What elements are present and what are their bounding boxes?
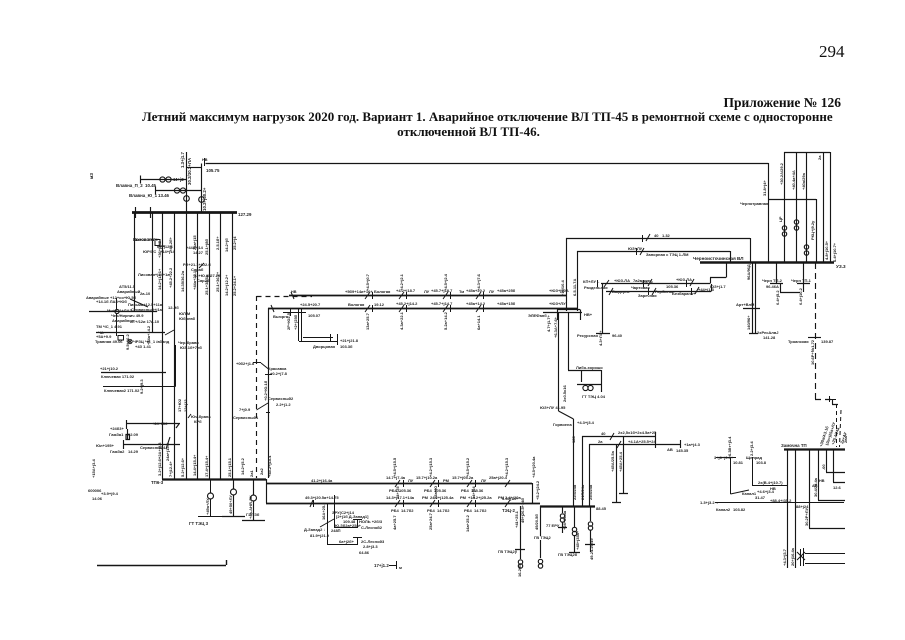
svg-text:+45.2+22.2: +45.2+22.2 [168, 267, 173, 288]
lower double bus slashes [310, 480, 510, 507]
svg-text:12+(13: 12+(13 [183, 399, 188, 412]
column short B [152, 212, 154, 332]
svg-text:49+50+ЛУ: 49+50+ЛУ [228, 495, 233, 514]
vline x830 [830, 152, 832, 262]
svg-text:2x(В.4+j10.7): 2x(В.4+j10.7) [758, 480, 783, 485]
svg-text:40: 40 [601, 431, 606, 436]
GT TEC circles [583, 385, 593, 390]
svg-text:12.6: 12.6 [833, 485, 842, 490]
column 5 [209, 212, 211, 479]
svg-text:13а+25.7: 13а+25.7 [365, 312, 370, 330]
svg-text:2x0.5х16: 2x0.5х16 [562, 385, 567, 402]
svg-text:3.4б(14+: 3.4б(14+ [502, 496, 519, 501]
svg-text:2.2+j3.4: 2.2+j3.4 [749, 441, 754, 456]
svg-text:14а+25.2: 14а+25.2 [465, 514, 470, 532]
svg-text:НВ: НВ [202, 158, 208, 162]
svg-text:14.2+jб: 14.2+jб [224, 238, 229, 252]
svg-text:Замочна ТП: Замочна ТП [781, 443, 807, 448]
svg-text:Сараб: Сараб [191, 267, 204, 272]
svg-text:.00: .00 [821, 464, 826, 470]
svg-text:139.87: 139.87 [821, 339, 834, 344]
TEC3 transformer drops [198, 479, 222, 517]
svg-text:+45а+15б: +45а+15б [497, 301, 516, 306]
node ticks on bus [136, 207, 151, 218]
svg-text:+41+25.1: +41+25.1 [514, 510, 519, 528]
breaker X symbol [128, 339, 132, 343]
svg-text:103.82: 103.82 [733, 507, 746, 512]
svg-text:1.3+j3.2→: 1.3+j3.2→ [700, 500, 719, 505]
riser to ladder [558, 312, 560, 411]
box Chernotravnaya top edge [768, 199, 817, 262]
svg-text:15.7+j10.2а: 15.7+j10.2а [416, 475, 438, 480]
svg-text:+ЮЗ-ЛА: +ЮЗ-ЛА [614, 278, 630, 283]
bus TEC2 right portion [540, 505, 595, 507]
svg-text:ГЗ ТЗб: ГЗ ТЗб [246, 512, 260, 517]
svg-text:Д-Запад2 ↓: Д-Запад2 ↓ [304, 527, 325, 532]
svg-text:17+j1.2: 17+j1.2 [374, 563, 389, 568]
svg-text:7+j0.9: 7+j0.9 [239, 407, 251, 412]
misc small ticks [205, 158, 692, 295]
bottom left long line [97, 560, 227, 566]
svg-text:+10/10.4: +10/10.4 [560, 280, 565, 296]
svg-text:22П/24а: 22П/24а [572, 484, 577, 500]
svg-text:77 ЕРУ: 77 ЕРУ [546, 523, 560, 528]
svg-text:105.36: 105.36 [641, 280, 654, 285]
svg-text:4.8+j10.5+: 4.8+j10.5+ [824, 240, 829, 260]
svg-text:+45а+25б: +45а+25б [497, 288, 516, 293]
page number [819, 42, 845, 62]
svg-text:+88.4+j35.2: +88.4+j35.2 [770, 498, 792, 503]
svg-text:+4.5+j2.4: +4.5+j2.4 [443, 273, 448, 291]
svg-text:+4.2+j2.1: +4.2+j2.1 [399, 273, 404, 291]
wire breaker feed 1 [141, 176, 187, 184]
svg-text:105.07: 105.07 [308, 313, 321, 318]
svg-text:РБ4: РБ4 [424, 488, 433, 493]
wire left branch 3b [103, 345, 191, 418]
svg-text:248П: 248П [331, 528, 341, 533]
svg-text:+24б3+: +24б3+ [110, 426, 124, 431]
transformer T2 [199, 197, 205, 203]
svg-text:2Р+Ю2.5: 2Р+Ю2.5 [286, 312, 291, 330]
svg-text:ЮР/УС: ЮР/УС [143, 249, 156, 254]
svg-text:+45+j35а+: +45+j35а+ [575, 530, 580, 550]
wire left branch 2 [96, 332, 165, 334]
svg-text:49/20.5б: 49/20.5б [534, 514, 539, 530]
ladder left risers to TEC2 bus [583, 436, 590, 506]
svg-text:+2А+j9.3: +2А+j9.3 [157, 442, 162, 459]
svg-text:64.86: 64.86 [359, 550, 370, 555]
bus A horizontal [289, 295, 566, 297]
bottom right stub lines [797, 548, 845, 566]
svg-text:30.2Р+ЛУ: 30.2Р+ЛУ [804, 507, 809, 526]
svg-text:Аварийное: Аварийное [112, 318, 135, 323]
wire left branch 4 (GamZa1) [126, 420, 180, 440]
TM ChS riser [117, 298, 175, 340]
breaker pair K1 [160, 177, 171, 182]
svg-text:+6.3А+7.6+: +6.3А+7.6+ [553, 316, 558, 338]
vline x796 [796, 152, 798, 262]
svg-text:ГТ ТЭЦ 3: ГТ ТЭЦ 3 [189, 521, 209, 526]
long riser x566 [566, 238, 568, 311]
svg-text:ЮЗ.1б+7нб: ЮЗ.1б+7нб [180, 345, 202, 350]
svg-text:31.8+j4+: 31.8+j4+ [762, 180, 767, 196]
svg-text:ТП6-3: ТП6-3 [151, 480, 164, 485]
bus1-bus2 link [267, 479, 533, 503]
svg-text:103.3б: 103.3б [340, 344, 353, 349]
svg-text:24а+j15.2: 24а+j15.2 [165, 442, 170, 461]
breaker circle left [115, 309, 119, 313]
svg-text:96.46А: 96.46А [766, 284, 779, 289]
chain line 1 [601, 262, 727, 284]
svg-text:88+j24: 88+j24 [796, 504, 809, 509]
svg-text:+4.1А+25.5+24: +4.1А+25.5+24 [628, 439, 656, 444]
bus Chernoistochinskaya [700, 261, 834, 264]
svg-text:Запорная с ТЭЦ 1-ЛМ: Запорная с ТЭЦ 1-ЛМ [646, 252, 689, 257]
bus B horizontal [268, 308, 577, 310]
svg-text:25.2+j4: 25.2+j4 [232, 236, 237, 250]
svg-text:105.36: 105.36 [399, 488, 412, 493]
dashed Troanskaya [815, 263, 842, 405]
svg-text:14.7б2: 14.7б2 [474, 508, 487, 513]
wire left branch 3 [101, 372, 166, 374]
svg-text:Горбатая: Горбатая [655, 289, 674, 294]
wire upper tie y238 [566, 238, 750, 240]
svg-text:Заречная: Заречная [638, 293, 657, 298]
svg-text:16-20б: 16-20б [517, 564, 522, 577]
svg-text:14.7б2: 14.7б2 [437, 508, 450, 513]
svg-text:+4.3+j3.4: +4.3+j3.4 [577, 420, 595, 425]
svg-text:+5.2+j24.2: +5.2+j24.2 [535, 480, 540, 500]
svg-text:Черноисточинская ВЛ: Черноисточинская ВЛ [693, 256, 744, 261]
svg-text:ЛУ: ЛУ [481, 478, 487, 483]
svg-text:+3.9+j9.4: +3.9+j9.4 [101, 491, 119, 496]
Gorvoyena link [559, 411, 574, 506]
svg-text:АВ: АВ [667, 447, 673, 452]
svg-text:Сервисный+j1а: Сервисный+j1а [131, 307, 163, 312]
svg-text:49.3+j20.5а+14.75: 49.3+j20.5а+14.75 [305, 495, 339, 500]
svg-text:2ва+: 2ва+ [843, 433, 848, 443]
svg-text:+0б2+j1.8: +0б2+j1.8 [236, 361, 255, 366]
breaker pair on x806 [804, 245, 808, 255]
svg-text:ЮЗ+ЛУ 41.95: ЮЗ+ЛУ 41.95 [540, 405, 566, 410]
svg-text:25П/24а: 25П/24а [588, 484, 593, 500]
svg-text:+21+j21.8: +21+j21.8 [340, 338, 359, 343]
svg-text:ЦР: ЦР [778, 216, 783, 222]
svg-text:13.46: 13.46 [158, 193, 170, 198]
bus A/B component slashes [271, 292, 481, 312]
svg-text:49+j20.5+14б: 49+j20.5+14б [520, 498, 525, 523]
svg-text:20+j16.4а: 20+j16.4а [790, 547, 795, 566]
svg-text:м: м [399, 565, 402, 570]
breaker pair on x796 [794, 220, 798, 230]
svg-text:+24+25.4а: +24+25.4а [562, 510, 567, 530]
bus2 lower [266, 503, 540, 505]
svg-text:17.4+j15.4+: 17.4+j15.4+ [204, 455, 209, 477]
GV TEC2 drop x590 [585, 506, 595, 552]
svg-text:127.29: 127.29 [238, 212, 252, 217]
svg-text:15.7+j05.2а: 15.7+j05.2а [452, 475, 474, 480]
svg-text:Черн ТП-2: Черн ТП-2 [762, 278, 783, 283]
bus TP6-1 [132, 211, 237, 214]
svg-text:105.36: 105.36 [666, 284, 679, 289]
ladder mid drops [612, 436, 628, 503]
twin drop x752 [743, 262, 760, 334]
svg-text:+4.5+j15.5: +4.5+j15.5 [392, 457, 397, 477]
svg-text:1.3+j1.7: 1.3+j1.7 [180, 151, 185, 168]
svg-text:Ключевая2 171.02: Ключевая2 171.02 [104, 388, 140, 393]
svg-text:96.40: 96.40 [612, 333, 623, 338]
svg-text:Влавна_П_2: Влавна_П_2 [116, 183, 143, 188]
GV TEC2 drop x562 [558, 506, 567, 533]
svg-text:19.12: 19.12 [374, 302, 385, 307]
svg-text:12-йб: 12-йб [168, 305, 179, 310]
annex heading [0, 95, 841, 111]
svg-text:КП+ЛУ→: КП+ЛУ→ [583, 279, 600, 284]
svg-text:88.45: 88.45 [596, 506, 607, 511]
svg-text:25.1+j8б: 25.1+j8б [204, 239, 209, 255]
svg-text:10.6Р+№1,72: 10.6Р+№1,72 [810, 339, 815, 365]
svg-text:9.5+10.2: 9.5+10.2 [125, 334, 130, 350]
D-Zapad drop [320, 495, 362, 545]
breaker pair K2 [174, 188, 185, 193]
svg-text:ЭЛЕФанб: ЭЛЕФанб [528, 313, 547, 318]
svg-text:+44+j2: +44+j2 [170, 177, 184, 182]
riser x730 [730, 251, 732, 262]
svg-text:РКЦ+j9.2у: РКЦ+j9.2у [810, 220, 815, 240]
svg-text:14+[24: 14+[24 [471, 486, 476, 499]
column 6 [220, 212, 222, 479]
svg-text:+45.2+j14.2: +45.2+j14.2 [396, 301, 418, 306]
svg-text:Либо-хорошо: Либо-хорошо [576, 365, 603, 370]
svg-text:Арт+ВлМ: Арт+ВлМ [736, 302, 755, 307]
svg-text:0.4+j5.2: 0.4+j5.2 [775, 290, 780, 305]
svg-text:4.7+j1.7+: 4.7+j1.7+ [546, 314, 551, 332]
svg-text:6.3Вт+j3.4: 6.3Вт+j3.4 [727, 436, 732, 456]
box under risers [543, 310, 582, 321]
ladder hline 436 [582, 432, 656, 440]
dashed tie line [257, 296, 313, 478]
svg-text:Юл+195+: Юл+195+ [96, 443, 115, 448]
bus1 continuation [266, 483, 532, 485]
svg-text:УЗ.3: УЗ.3 [836, 264, 846, 269]
svg-text:7+j12.4+: 7+j12.4+ [168, 461, 173, 477]
svg-text:ГВ ТЭЦ2(!: ГВ ТЭЦ2(! [498, 549, 517, 554]
svg-text:РБ4: РБ4 [464, 508, 473, 513]
Servisny risers [253, 363, 272, 413]
wire left branch 5 (GamZa2) [123, 437, 180, 449]
svg-text:Травная 49.06: Травная 49.06 [95, 339, 123, 344]
top right header line [784, 152, 830, 154]
column 4 [197, 212, 199, 479]
svg-text:6.4+j10.7+: 6.4+j10.7+ [832, 242, 837, 262]
svg-text:С-Лесной2: С-Лесной2 [361, 525, 383, 530]
svg-text:16А+25.2: 16А+25.2 [321, 502, 326, 520]
svg-text:+14+j14: +14+j14 [160, 249, 175, 254]
svg-text:Сервисный2: Сервисный2 [268, 396, 294, 401]
Troanskaya crossbar [808, 337, 821, 339]
svg-text:4.3а+22.1: 4.3а+22.1 [399, 311, 404, 330]
svg-text:14.35/36.2а: 14.35/36.2а [180, 270, 185, 292]
svg-text:21П/24а: 21П/24а [580, 484, 585, 500]
svg-text:+4.2+j15.3: +4.2+j15.3 [428, 457, 433, 477]
bus1 lower (TP6-3) [162, 478, 266, 480]
svg-text:14.06: 14.06 [92, 496, 103, 501]
svg-text:25а+24.7: 25а+24.7 [428, 512, 433, 530]
svg-text:Дворцовая: Дворцовая [313, 344, 336, 349]
svg-text:РБ4: РБ4 [461, 488, 470, 493]
svg-text:НВ: НВ [770, 486, 776, 491]
transformer T1 [184, 196, 190, 202]
svg-text:25а+Ю: 25а+Ю [433, 486, 438, 499]
lower double bus ticks [314, 480, 476, 507]
svg-text:Чартовая: Чартовая [631, 285, 650, 290]
svg-text:1.32: 1.32 [662, 233, 671, 238]
svg-text:+40а/29а: +40а/29а [801, 172, 806, 190]
svg-text:0.4+j10.2: 0.4+j10.2 [798, 287, 803, 305]
bus Zamochnaya TP [784, 448, 845, 450]
column short A [134, 212, 136, 311]
svg-text:+ЮЗ+ЛУ: +ЮЗ+ЛУ [549, 301, 566, 306]
svg-text:14.2+j5.2: 14.2+j5.2 [240, 457, 245, 475]
svg-text:2х2,5х1б+2х4.5а+25: 2х2,5х1б+2х4.5а+25 [618, 430, 657, 435]
svg-text:+49а+ЛУ: +49а+ЛУ [205, 498, 210, 515]
svg-text:Сервисный4: Сервисный4 [140, 445, 166, 450]
long riser x577 [577, 251, 579, 311]
svg-text:2а: 2а [598, 439, 603, 444]
ladder slashes [610, 433, 621, 448]
title line 1 [142, 109, 833, 125]
svg-text:Аварийный: Аварийный [117, 289, 141, 294]
svg-text:ГамЗа2: ГамЗа2 [110, 449, 125, 454]
svg-text:1а+22.2 +ЛУ: 1а+22.2 +ЛУ [135, 237, 159, 242]
svg-text:ГамЗа1: ГамЗа1 [109, 432, 124, 437]
chain line 2 [606, 284, 712, 292]
svg-text:РМ: РМ [422, 495, 429, 500]
svg-text:+30.2А/29.2: +30.2А/29.2 [779, 162, 784, 185]
svg-text:14.29: 14.29 [128, 449, 139, 454]
Dvortsovaya branch [283, 308, 338, 345]
svg-text:14.2+j12.2+: 14.2+j12.2+ [224, 274, 229, 296]
svg-text:+24.5+20.7: +24.5+20.7 [300, 302, 321, 307]
svg-text:НВ: НВ [291, 290, 297, 294]
svg-text:40: 40 [654, 233, 659, 238]
svg-text:31.47: 31.47 [755, 495, 766, 500]
title line 2 [0, 124, 905, 140]
svg-text:103.8: 103.8 [756, 460, 767, 465]
svg-text:2а1: 2а1 [249, 470, 254, 477]
svg-text:2а-10: 2а-10 [140, 291, 151, 296]
svg-text:2.5.1б+: 2.5.1б+ [215, 236, 220, 250]
svg-text:ЛУ: ЛУ [424, 289, 430, 294]
svg-text:+24+Ю2: +24+Ю2 [152, 421, 168, 426]
column 3 [186, 212, 188, 479]
svg-text:140/96+: 140/96+ [746, 315, 751, 330]
svg-text:Ресурсная: Ресурсная [577, 333, 598, 338]
svg-text:ЮЗ+j1.7: ЮЗ+j1.7 [710, 284, 726, 289]
svg-text:Сар2б: Сар2б [197, 278, 210, 283]
svg-text:30.2/30.2+ЛА: 30.2/30.2+ЛА [187, 157, 192, 185]
svg-text:185: 185 [571, 436, 576, 443]
svg-text:КРб: КРб [194, 419, 202, 424]
svg-text:АТ+/12и 17а-10: АТ+/12и 17а-10 [130, 319, 160, 324]
column 1 [162, 212, 164, 479]
svg-text:+21+j10.2: +21+j10.2 [100, 366, 119, 371]
svg-text:Влавна_Ю_1: Влавна_Ю_1 [129, 193, 158, 198]
svg-text:600006: 600006 [88, 488, 102, 493]
svg-text:+4.5+j0.7: +4.5+j0.7 [365, 273, 370, 291]
svg-text:РБ4: РБ4 [391, 508, 400, 513]
svg-text:+4.2+j15.3: +4.2+j15.3 [504, 457, 509, 477]
wire riser crossbar [187, 167, 202, 169]
svg-text:+14а+14.2: +14а+14.2 [146, 325, 151, 345]
svg-text:Черн ТП-1: Черн ТП-1 [791, 278, 812, 283]
GV TEC2 drop x574 [569, 506, 580, 553]
column 2 [174, 212, 176, 479]
chain start riser / Resursnaya drop [596, 283, 610, 334]
svg-text:14.4+j15.4+: 14.4+j15.4+ [192, 454, 197, 476]
svg-text:Безбарана+: Безбарана+ [672, 291, 696, 296]
tie riser x268 [268, 308, 270, 478]
svg-text:14.7б2: 14.7б2 [401, 508, 414, 513]
svg-text:4а+25.7: 4а+25.7 [392, 515, 397, 530]
svg-text:+40.4а+4А: +40.4а+4А [791, 170, 796, 190]
svg-text:РМ: РМ [443, 478, 450, 483]
svg-text:17+Ю2: 17+Ю2 [177, 398, 182, 412]
svg-text:НВ+: НВ+ [584, 312, 593, 317]
svg-text:ГВ ТЭЦ2: ГВ ТЭЦ2 [534, 535, 551, 540]
svg-text:ГТ ТЭЦ 4.04: ГТ ТЭЦ 4.04 [582, 394, 606, 399]
svg-text:НОЛЬ +2б/3: НОЛЬ +2б/3 [359, 519, 383, 524]
svg-text:ЮЗ+ЛУ: ЮЗ+ЛУ [628, 246, 643, 251]
svg-text:+0.2+j7.8: +0.2+j7.8 [270, 371, 288, 376]
svg-text:Ключевая 171.02: Ключевая 171.02 [101, 374, 135, 379]
breaker pair on x784 [782, 226, 786, 236]
svg-text:+45А/25.5а: +45А/25.5а [610, 450, 615, 472]
svg-text:НВ: НВ [819, 479, 825, 483]
svg-text:+4.3+j3.7: +4.3+j3.7 [782, 548, 787, 566]
wire breaker feed 2 [156, 187, 202, 195]
svg-text:РМ: РМ [460, 495, 467, 500]
svg-text:10.45: 10.45 [145, 183, 157, 188]
riser x750 [750, 238, 752, 262]
svg-text:Горвоена: Горвоена [553, 422, 572, 427]
svg-text:2а2: 2а2 [259, 468, 264, 475]
chain slashes [604, 234, 699, 295]
svg-text:+ЮЗ+j50А: +ЮЗ+j50А [549, 288, 569, 293]
svg-text:145.35: 145.35 [676, 448, 689, 453]
svg-text:10.2+j30.2+: 10.2+j30.2+ [202, 187, 207, 211]
svg-text:2а: 2а [817, 155, 822, 160]
measure symbol [389, 561, 397, 569]
Zamochnaya drops [788, 449, 846, 568]
svg-text:25.1+j15.1: 25.1+j15.1 [227, 457, 232, 477]
svg-text:141.28: 141.28 [763, 335, 776, 340]
svg-text:ГВ ТЭЦ2б: ГВ ТЭЦ2б [558, 552, 578, 557]
svg-text:+15А+j3.4: +15А+j3.4 [91, 459, 96, 478]
svg-text:25.2+24.1+: 25.2+24.1+ [232, 275, 237, 296]
Chern TP-2 drop [770, 262, 800, 293]
svg-text:5.2+j12.6+: 5.2+j12.6+ [180, 457, 185, 477]
Chern TP-1 drop [797, 262, 810, 292]
svg-text:105.75: 105.75 [206, 168, 220, 173]
TEC-2 drop x520 [515, 506, 525, 559]
svg-text:10.81: 10.81 [733, 460, 744, 465]
svg-text:+45А+25.4: +45А+25.4 [618, 451, 623, 472]
wire left branch 1 [89, 311, 157, 313]
svg-text:6.5-11.7А: 6.5-11.7А [572, 279, 577, 296]
svg-text:АВ: АВ [812, 484, 818, 488]
svg-text:+45.7+j14.7: +45.7+j14.7 [431, 301, 453, 306]
